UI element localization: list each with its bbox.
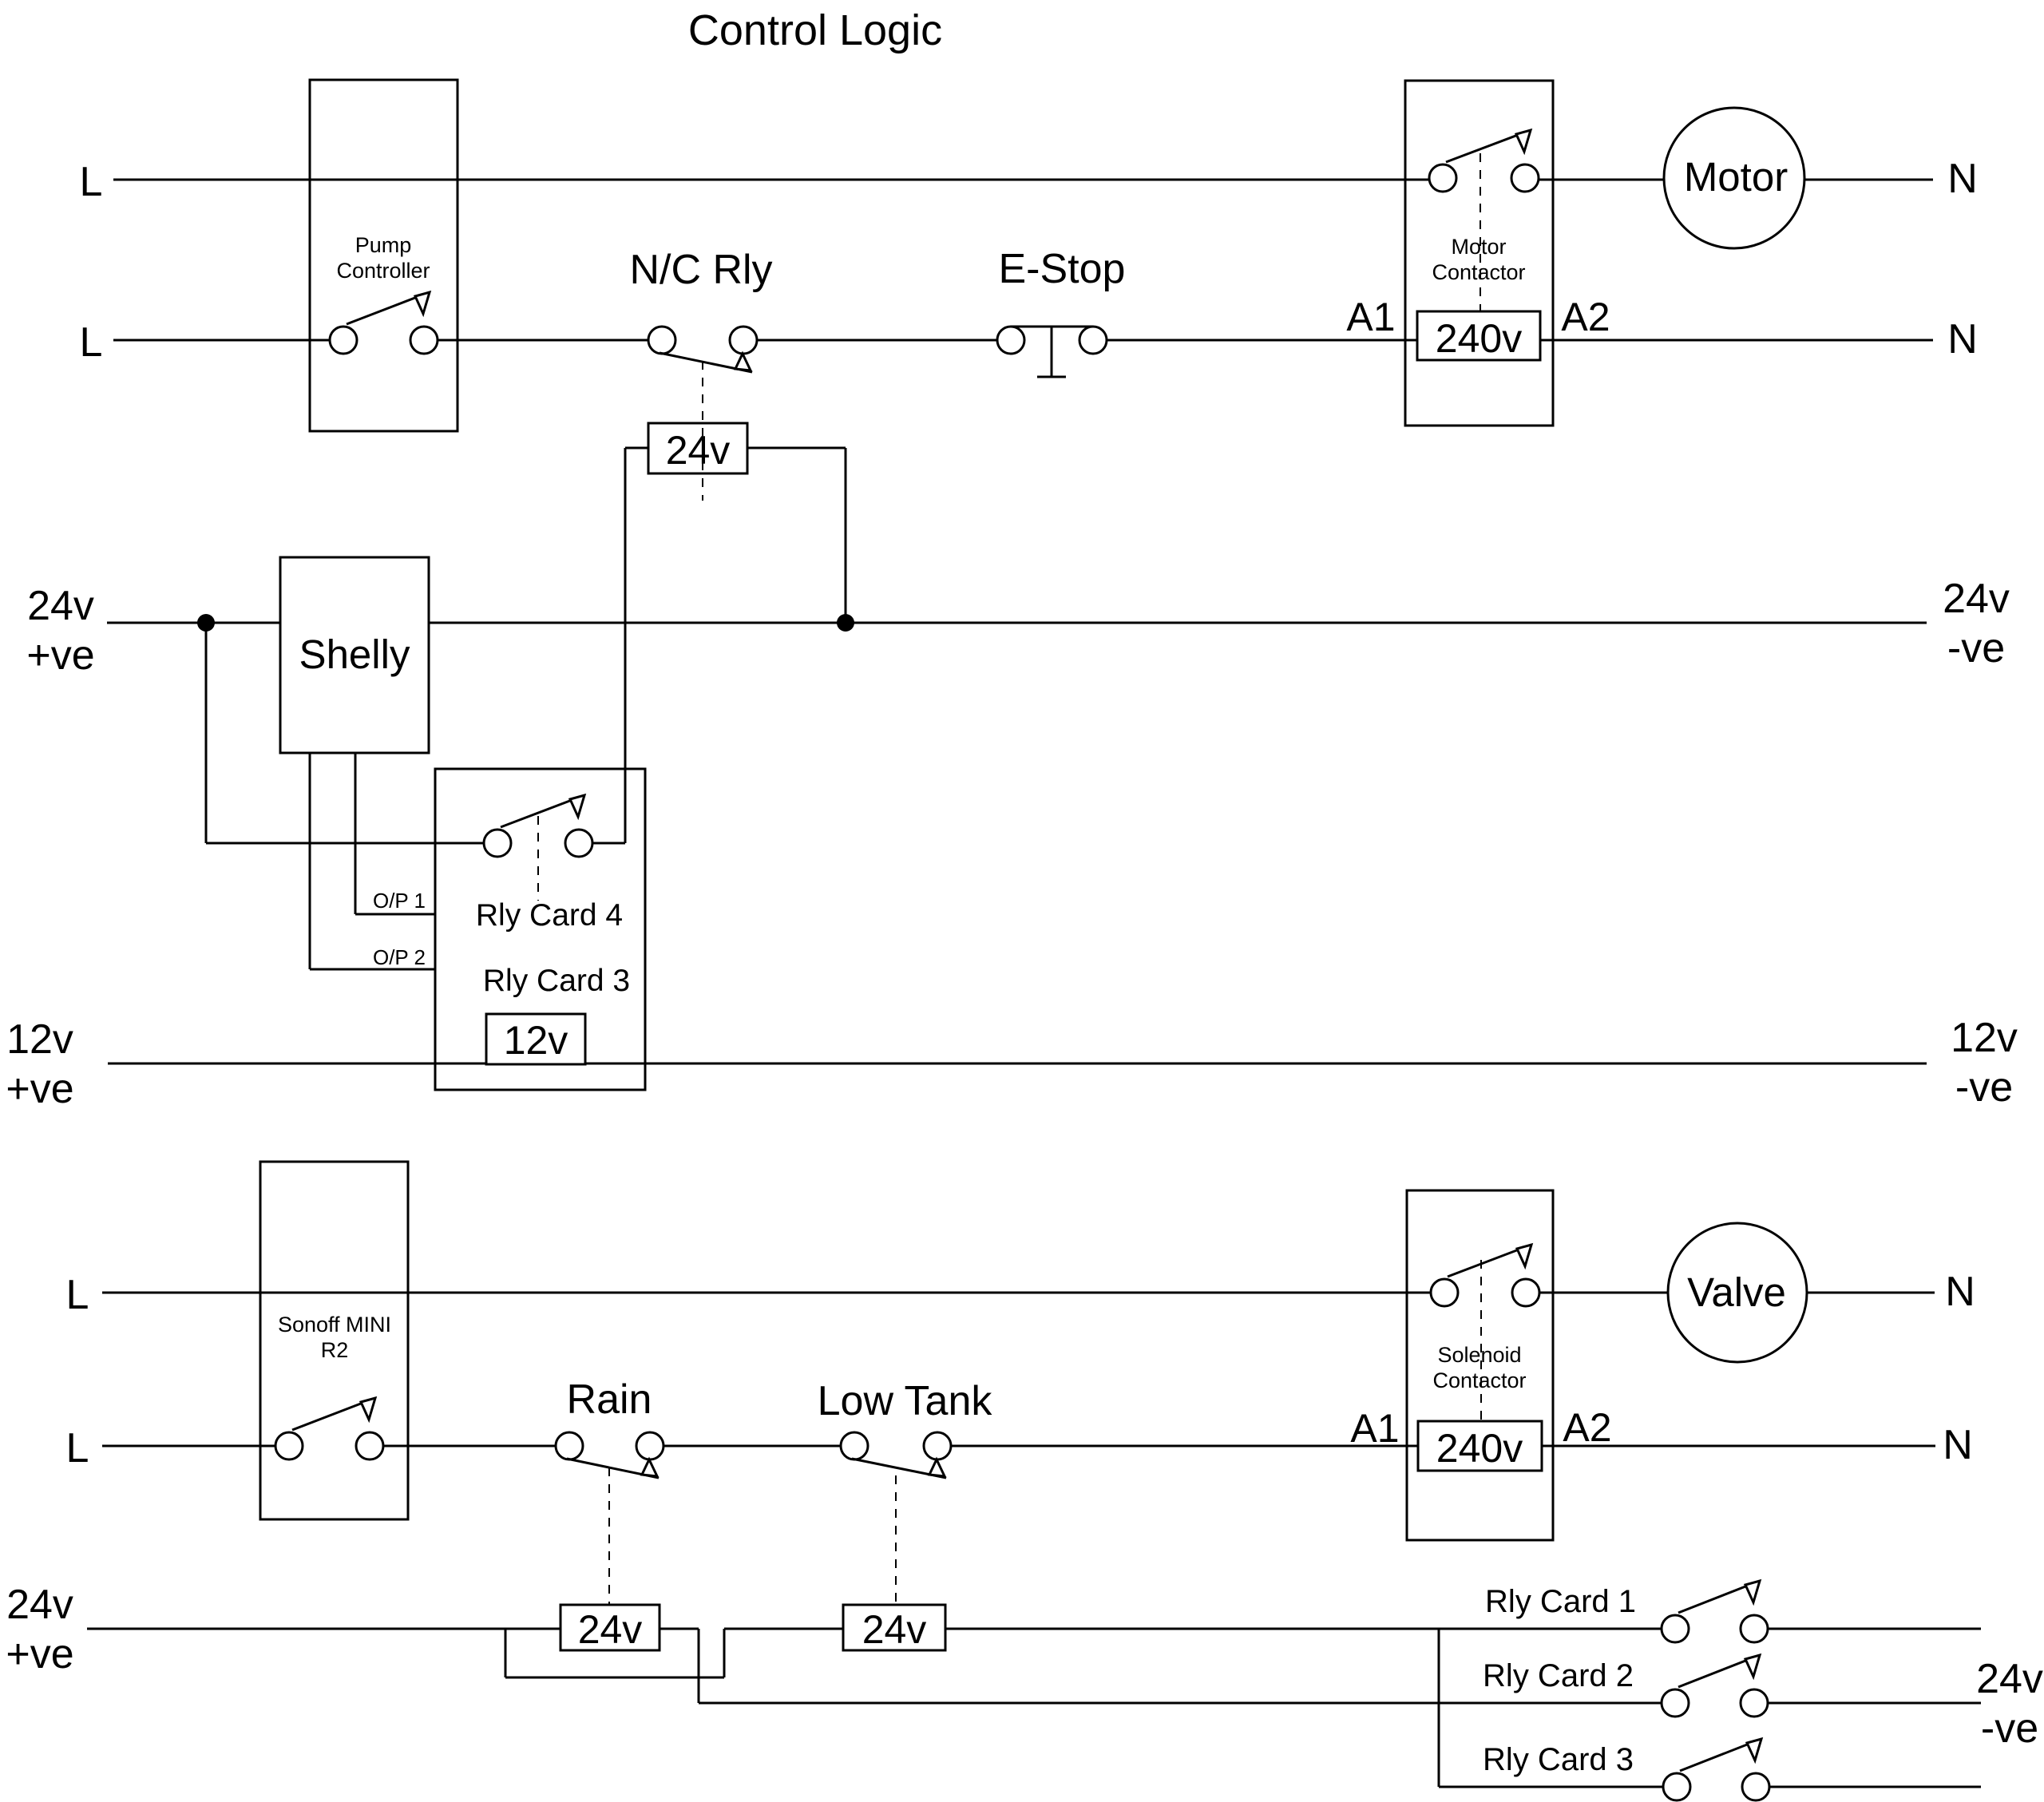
svg-text:Contactor: Contactor	[1432, 1368, 1526, 1392]
wire: bypass bottom run	[505, 1677, 724, 1679]
svg-text:Rly Card 2: Rly Card 2	[1483, 1658, 1634, 1693]
wire: O/P 1 to relay card	[355, 913, 435, 916]
svg-text:12v: 12v	[6, 1016, 73, 1063]
switch Rly Card 4 contact (N/O)	[484, 795, 592, 857]
svg-text:R2: R2	[321, 1338, 349, 1362]
svg-text:24v: 24v	[27, 583, 94, 629]
svg-text:12v: 12v	[504, 1018, 568, 1063]
wire: 24v +ve to Rain coil	[87, 1628, 561, 1630]
svg-text:24v: 24v	[1976, 1656, 2043, 1702]
switch motor contactor contact (N/O)	[1429, 130, 1539, 192]
coil 240v (motor contactor)	[1417, 311, 1540, 360]
coil 12v (relay card)	[486, 1014, 585, 1064]
link Low Tank coil	[895, 1475, 897, 1605]
wire: Rain coil output drop	[698, 1629, 700, 1703]
svg-text:Valve: Valve	[1687, 1269, 1786, 1315]
svg-text:+ve: +ve	[6, 1631, 73, 1677]
valve V	[1668, 1223, 1807, 1362]
wire: rail4 Rain to Low Tank switch	[664, 1445, 841, 1448]
link Rain coil	[608, 1467, 610, 1605]
solenoid contactor box	[1407, 1190, 1553, 1540]
svg-text:A2: A2	[1563, 1405, 1611, 1450]
svg-text:N: N	[1945, 1269, 1975, 1315]
svg-text:Control Logic: Control Logic	[688, 6, 942, 54]
svg-text:24v: 24v	[6, 1582, 73, 1628]
node: 24v junction right	[837, 614, 854, 632]
wire: Low Tank coil to Rly Card 1	[945, 1628, 1662, 1630]
svg-text:24v: 24v	[1943, 576, 2010, 622]
relay card box (Rly Card 3/4)	[435, 769, 645, 1090]
switch Rain sensor contact (N/C)	[556, 1432, 664, 1478]
svg-text:+ve: +ve	[6, 1066, 73, 1112]
svg-text:Solenoid: Solenoid	[1437, 1343, 1521, 1367]
wire: drop from 24v junction	[205, 623, 208, 843]
svg-text:L: L	[66, 1425, 89, 1471]
svg-text:Shelly: Shelly	[299, 632, 410, 677]
link N/C Rly to coil	[702, 361, 703, 501]
wire: rail1 L to motor contactor	[113, 179, 1429, 181]
svg-text:Rain: Rain	[567, 1376, 652, 1423]
svg-text:240v: 240v	[1436, 1426, 1523, 1471]
svg-text:240v: 240v	[1436, 316, 1522, 361]
svg-text:O/P 1: O/P 1	[373, 889, 426, 913]
wire: rail2 E-Stop to A1 coil	[1107, 339, 1417, 342]
Sonoff MINI R2 box	[260, 1162, 408, 1519]
wire: rail3 contactor to Valve	[1539, 1292, 1668, 1294]
motor M	[1664, 108, 1804, 248]
svg-text:24v: 24v	[578, 1607, 643, 1652]
svg-text:N: N	[1943, 1422, 1973, 1468]
svg-text:Sonoff MINI: Sonoff MINI	[278, 1313, 391, 1337]
svg-text:O/P 2: O/P 2	[373, 945, 426, 969]
coil 24v (Rain)	[561, 1605, 660, 1650]
wire: rail2 L to pump switch	[113, 339, 330, 342]
switch Rly Card 1 contact (N/O)	[1662, 1581, 1768, 1642]
svg-text:N: N	[1947, 316, 1978, 362]
svg-text:Contactor: Contactor	[1432, 260, 1525, 284]
svg-text:Rly Card 4: Rly Card 4	[476, 898, 623, 933]
svg-text:+ve: +ve	[26, 632, 94, 679]
wire: rail4 A2 coil to N	[1542, 1445, 1935, 1448]
svg-text:24v: 24v	[666, 428, 731, 473]
link motor contactor coil	[1480, 153, 1481, 311]
wire: rail4 L to Sonoff switch	[102, 1445, 275, 1448]
svg-text:-ve: -ve	[1947, 625, 2005, 671]
wire: bus to Rly Card 3	[1439, 1786, 1663, 1788]
wire: rail2 pump switch to N/C Rly	[438, 339, 648, 342]
svg-text:E-Stop: E-Stop	[999, 246, 1126, 292]
wire: relay card bus	[1438, 1629, 1440, 1787]
svg-text:24v: 24v	[862, 1607, 927, 1652]
wire: bypass drop left	[505, 1629, 507, 1677]
wire: bypass riser to Low Tank coil	[724, 1628, 843, 1630]
svg-text:-ve: -ve	[1955, 1064, 2013, 1111]
svg-text:Pump: Pump	[355, 233, 412, 257]
wire: Shelly O/P 2 drop	[309, 753, 311, 969]
motor contactor box	[1405, 81, 1553, 426]
wire: Shelly O/P 1 drop	[355, 753, 357, 914]
wire: rail2 N/C Rly to E-Stop	[757, 339, 997, 342]
svg-text:A2: A2	[1561, 295, 1610, 339]
switch N/C Rly contact (N/C)	[648, 327, 757, 372]
wire: Rly Card 3 output	[1769, 1786, 1981, 1788]
svg-text:Motor: Motor	[1451, 235, 1506, 259]
svg-text:-ve: -ve	[1981, 1705, 2038, 1752]
svg-text:Rly Card 3: Rly Card 3	[1483, 1742, 1634, 1777]
wire: junction to Rly Card 4 switch	[206, 842, 484, 845]
wire: N/C Rly coil feed drop	[624, 448, 627, 843]
wire: rail4 Low Tank to A1 coil	[951, 1445, 1418, 1448]
wire: rail1 Motor to N	[1804, 179, 1933, 181]
wire: rail2 A2 coil to N	[1540, 339, 1933, 342]
coil 24v (N/C Rly)	[648, 423, 747, 473]
wire: N/C Rly coil right stub	[747, 447, 846, 450]
wire: Rain coil to drop	[660, 1628, 699, 1630]
wire: rail4 Sonoff to Rain switch	[383, 1445, 556, 1448]
wire: Rain coil branch to Rly Card 2	[699, 1702, 1662, 1705]
link solenoid coil	[1480, 1260, 1482, 1422]
wire: bypass riser	[723, 1629, 726, 1677]
switch Rly Card 3 contact (N/O)	[1663, 1739, 1769, 1800]
wire: 12v rail	[108, 1063, 1927, 1065]
wire: Rly Card 2 output	[1768, 1702, 1981, 1705]
svg-text:L: L	[80, 319, 103, 366]
coil 240v (solenoid)	[1418, 1421, 1542, 1471]
svg-text:Rly Card 1: Rly Card 1	[1485, 1584, 1636, 1619]
switch Rly Card 2 contact (N/O)	[1662, 1655, 1768, 1717]
wire: Rly Card 1 output	[1768, 1628, 1981, 1630]
node: 24v junction left	[197, 614, 215, 632]
wire: Rly Card 4 switch to coil feed	[592, 842, 625, 845]
link Rly Card 4 coil	[537, 816, 539, 901]
switch pump controller contact (N/O)	[330, 292, 438, 354]
svg-text:Rly Card 3: Rly Card 3	[483, 964, 630, 998]
pump controller box	[310, 80, 458, 431]
svg-text:N/C Rly: N/C Rly	[629, 247, 772, 293]
coil 24v (Low Tank)	[843, 1605, 945, 1650]
svg-text:Controller: Controller	[336, 259, 430, 283]
svg-text:12v: 12v	[1951, 1015, 2018, 1061]
switch Sonoff contact (N/O)	[275, 1398, 383, 1459]
wire: rail3 Valve to N	[1807, 1292, 1935, 1294]
wire: rail3 L to solenoid contactor	[102, 1292, 1431, 1294]
wire: 24v +ve rail to Shelly	[107, 622, 280, 624]
Shelly box	[280, 557, 429, 753]
wire: N/C Rly coil left stub	[625, 447, 648, 450]
wire: rail1 contactor to Motor	[1539, 179, 1664, 181]
svg-text:L: L	[80, 159, 103, 205]
svg-text:Low Tank: Low Tank	[818, 1378, 993, 1424]
switch solenoid contactor contact (N/O)	[1431, 1245, 1539, 1306]
svg-text:A1: A1	[1346, 295, 1395, 339]
switch Low Tank contact (N/C)	[841, 1432, 951, 1478]
wire: 24v rail Shelly to -ve	[429, 622, 1927, 624]
svg-text:Motor: Motor	[1684, 154, 1788, 200]
switch E-Stop pushbutton	[997, 327, 1107, 377]
svg-text:L: L	[66, 1272, 89, 1318]
wire: O/P 2 to relay card	[310, 968, 435, 971]
wire: N/C Rly coil drop to 24v rail	[845, 448, 847, 623]
svg-text:N: N	[1947, 156, 1978, 202]
svg-text:A1: A1	[1350, 1406, 1399, 1451]
